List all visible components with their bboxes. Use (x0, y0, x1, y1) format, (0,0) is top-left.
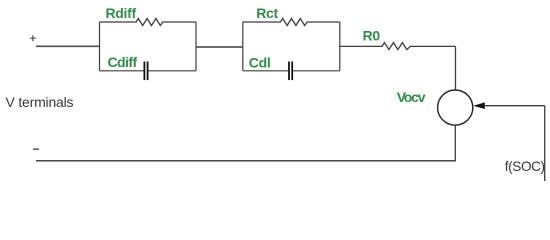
wire box1 left vertical (99, 22, 101, 71)
capacitor Cdl (243, 62, 340, 81)
svg-text:Cdl: Cdl (249, 54, 271, 70)
wire feedback vertical (544, 106, 546, 181)
svg-text:Cdiff: Cdiff (108, 54, 138, 70)
terminal plus sign (30, 35, 36, 41)
wire box1 right vertical (195, 22, 197, 71)
feedback arrow into source (473, 102, 485, 109)
wire positive lead (36, 45, 100, 47)
wire box2 left vertical (242, 22, 244, 71)
wire feedback horizontal (484, 105, 545, 107)
capacitor Cdiff (100, 62, 197, 81)
voltage source Vocv circle (438, 90, 473, 125)
svg-text:Vocv: Vocv (397, 89, 426, 105)
svg-text:Rdiff: Rdiff (106, 5, 137, 21)
svg-text:f(SOC): f(SOC) (505, 159, 545, 174)
wire between RC pairs (196, 46, 243, 48)
resistor Rdiff (100, 19, 197, 26)
wire source bottom to return (454, 125, 456, 160)
svg-text:R0: R0 (363, 28, 381, 44)
svg-text:V terminals: V terminals (6, 94, 74, 110)
wire negative return (36, 160, 456, 162)
svg-text:Rct: Rct (256, 5, 278, 21)
wire box2 right vertical (339, 22, 341, 71)
resistor Rct (243, 19, 340, 26)
terminal minus sign (33, 148, 39, 150)
resistor R0 (340, 43, 456, 50)
wire down to source (455, 46, 457, 89)
